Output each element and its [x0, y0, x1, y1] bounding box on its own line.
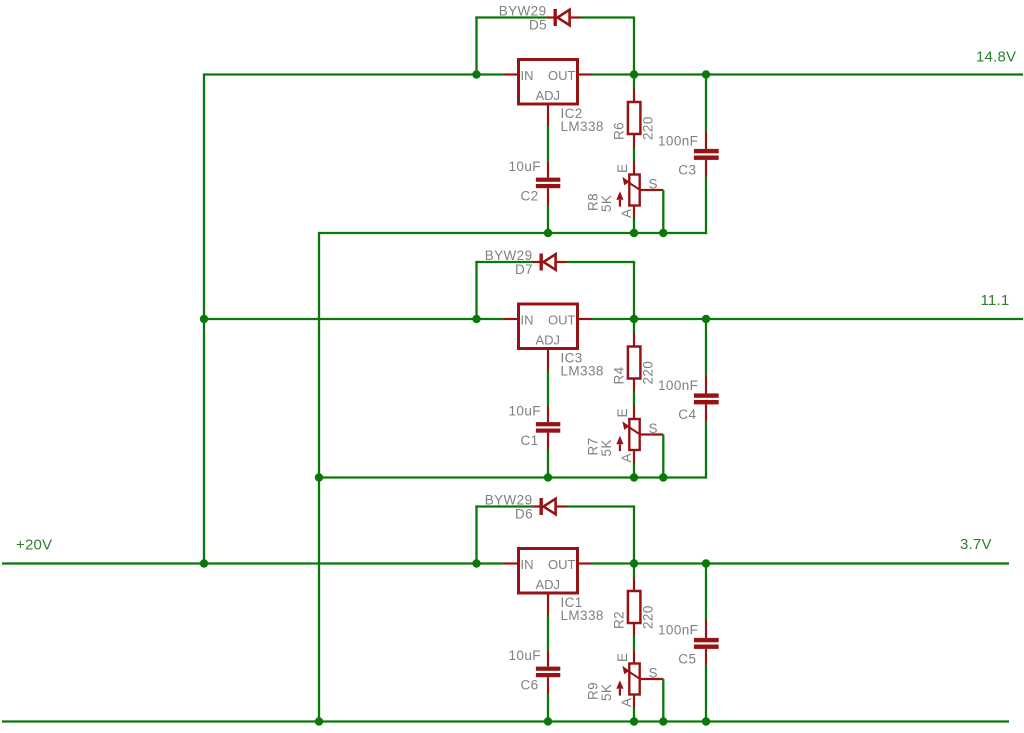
label net 3.7V — [960, 536, 992, 553]
diode D6 BYW29 — [533, 498, 567, 515]
wire OUT to R2 — [633, 564, 635, 579]
wire R7 bottom to rail — [633, 463, 635, 478]
wire bottom rail stage 2 — [319, 476, 706, 478]
label C6 value 10uF — [509, 648, 541, 663]
label pin ADJ IC2 — [536, 88, 561, 103]
svg-text:OUT: OUT — [548, 313, 576, 328]
node diode-left junction stage 1 — [472, 70, 480, 78]
diode D5 BYW29 — [547, 9, 581, 26]
resistor R4 220 — [628, 334, 641, 392]
svg-text:LM338: LM338 — [561, 119, 604, 134]
label C6 name — [521, 678, 539, 693]
svg-text:IN: IN — [521, 557, 534, 572]
label D6 name — [515, 507, 533, 522]
svg-text:220: 220 — [641, 605, 656, 629]
svg-text:E: E — [615, 164, 630, 173]
svg-text:E: E — [615, 408, 630, 417]
node OUT junction stage 1 — [630, 70, 638, 78]
node 100nF junction stage 3 — [702, 559, 710, 567]
wire ground bus vertical x=319 — [318, 232, 320, 722]
svg-text:C2: C2 — [521, 189, 539, 204]
wire R9 bottom to rail — [633, 707, 635, 722]
svg-text:BYW29: BYW29 — [485, 248, 533, 263]
wire diode loop left vertical stage 1 — [475, 16, 477, 74]
label C4 name — [678, 407, 696, 422]
svg-text:C6: C6 — [521, 678, 539, 693]
svg-text:ADJ: ADJ — [536, 577, 561, 592]
wire diode loop left vertical stage 2 — [475, 261, 477, 319]
wire diode loop top-right segment stage 2 — [567, 261, 636, 263]
node ground junction at stage2 bottom rail — [315, 473, 323, 481]
resistor R6 220 — [628, 89, 641, 147]
svg-text:OUT: OUT — [548, 68, 576, 83]
svg-text:ADJ: ADJ — [536, 88, 561, 103]
label pin IN IC1 — [521, 557, 534, 572]
svg-text:10uF: 10uF — [509, 404, 541, 419]
label R9 value 5K (rotated) — [599, 684, 614, 701]
node wiper junction stage 3 — [659, 717, 667, 725]
svg-text:A: A — [619, 698, 634, 707]
wire ground rail — [2, 720, 1009, 722]
label D7 name — [515, 262, 533, 277]
svg-text:R2: R2 — [612, 611, 627, 629]
svg-text:C3: C3 — [678, 163, 696, 178]
node +20V junction at stage3 input — [200, 559, 208, 567]
pin ADJ stub IC3 — [547, 349, 549, 371]
node ground junction on bottom rail — [315, 717, 323, 725]
label pin OUT IC2 — [548, 68, 576, 83]
node R8 bottom junction — [630, 229, 638, 237]
label C5 value 100nF — [658, 623, 698, 638]
svg-text:R6: R6 — [612, 122, 627, 140]
node R9 bottom junction — [630, 717, 638, 725]
svg-text:D7: D7 — [515, 262, 533, 277]
label pin ADJ IC1 — [536, 577, 561, 592]
wire diode loop top-right segment stage 1 — [581, 16, 636, 18]
pin IN stub IC2 — [504, 73, 519, 75]
wire input rail stage 3 — [2, 562, 504, 564]
wire OUT to C4 — [705, 319, 707, 376]
label pin E R8 (rotated) — [615, 164, 630, 173]
svg-text:S: S — [649, 177, 658, 192]
svg-text:ADJ: ADJ — [536, 333, 561, 348]
wire diode loop left vertical stage 3 — [475, 505, 477, 563]
label R4 name (rotated) — [612, 366, 627, 384]
svg-text:D5: D5 — [529, 18, 547, 33]
svg-text:E: E — [615, 653, 630, 662]
pin ADJ stub IC2 — [547, 104, 549, 126]
resistor R2 220 — [628, 578, 641, 636]
node R7 bottom junction — [630, 473, 638, 481]
wire OUT to C3 — [705, 75, 707, 132]
label pin IN IC3 — [521, 313, 534, 328]
svg-text:A: A — [619, 209, 634, 218]
label pin A R7 (rotated) — [619, 453, 634, 462]
potentiometer R9 5K — [616, 651, 663, 708]
wire diode loop top-left segment stage 1 — [475, 16, 546, 18]
label pin OUT IC3 — [548, 313, 576, 328]
node diode-left junction stage 2 — [472, 315, 480, 323]
svg-text:IN: IN — [521, 68, 534, 83]
label R2 name (rotated) — [612, 611, 627, 629]
svg-text:S: S — [649, 421, 658, 436]
svg-text:5K: 5K — [599, 195, 614, 212]
label pin ADJ IC3 — [536, 333, 561, 348]
label R8 name (rotated) — [586, 193, 601, 211]
pin IN stub IC3 — [504, 318, 519, 320]
label pin A R8 (rotated) — [619, 209, 634, 218]
svg-text:D6: D6 — [515, 507, 533, 522]
potentiometer R8 5K — [616, 162, 663, 219]
potentiometer R7 5K — [616, 406, 663, 463]
wire C1 to bottom rail — [547, 450, 549, 478]
wire R4 to R7 — [633, 392, 635, 407]
label R6 value 220 (rotated) — [641, 116, 656, 140]
pin OUT stub IC3 — [578, 318, 592, 320]
svg-text:R4: R4 — [612, 366, 627, 384]
label IC3 name — [561, 351, 583, 366]
label R8 value 5K (rotated) — [599, 195, 614, 212]
label IC1 value LM338 — [561, 608, 604, 623]
pin OUT stub IC1 — [578, 562, 592, 564]
wire diode loop right vertical stage 2 — [633, 262, 635, 319]
label R7 name (rotated) — [586, 437, 601, 455]
label pin S R8 — [649, 177, 658, 192]
svg-text:A: A — [619, 453, 634, 462]
svg-text:C5: C5 — [678, 652, 696, 667]
wire +20V feed vertical x=204 — [203, 73, 205, 563]
label pin A R9 (rotated) — [619, 698, 634, 707]
label IC2 value LM338 — [561, 119, 604, 134]
node OUT junction stage 3 — [630, 559, 638, 567]
svg-text:100nF: 100nF — [658, 134, 698, 149]
wire C6 to bottom rail — [547, 694, 549, 722]
capacitor C3 100nF — [694, 132, 719, 177]
wire diode loop top-left segment stage 2 — [475, 261, 532, 263]
wire wiper S down to rail stage 3 — [662, 679, 664, 722]
wire R2 to R9 — [633, 636, 635, 651]
svg-text:OUT: OUT — [548, 557, 576, 572]
label C4 value 100nF — [658, 378, 698, 393]
svg-text:10uF: 10uF — [509, 648, 541, 663]
node 100nF junction stage 1 — [702, 70, 710, 78]
label R6 name (rotated) — [612, 122, 627, 140]
label IC2 name — [561, 106, 583, 121]
svg-text:3.7V: 3.7V — [960, 536, 992, 553]
pin IN stub IC1 — [504, 562, 519, 564]
wire OUT to R4 — [633, 319, 635, 334]
op-amp regulator IC2 LM338 — [519, 60, 578, 105]
label net 14.8V — [976, 49, 1016, 66]
wire wiper S down to rail stage 2 — [662, 435, 664, 478]
node 100nF junction stage 2 — [702, 315, 710, 323]
svg-text:C1: C1 — [521, 433, 539, 448]
wire bottom rail stage 1 — [319, 232, 706, 234]
svg-text:5K: 5K — [599, 684, 614, 701]
pin ADJ stub IC1 — [547, 593, 549, 615]
label D7 value BYW29 — [485, 248, 533, 263]
wire ADJ net stage 1 — [547, 126, 549, 161]
wire R6 to R8 — [633, 147, 635, 162]
label C3 value 100nF — [658, 134, 698, 149]
label C5 name — [678, 652, 696, 667]
label R9 name (rotated) — [586, 682, 601, 700]
label pin S R7 — [649, 421, 658, 436]
wire diode loop top-right segment stage 3 — [567, 505, 636, 507]
svg-text:220: 220 — [641, 116, 656, 140]
label IC1 name — [561, 595, 583, 610]
label C1 name — [521, 433, 539, 448]
wire diode loop top-left segment stage 3 — [475, 505, 532, 507]
svg-text:BYW29: BYW29 — [499, 4, 547, 19]
svg-text:IN: IN — [521, 313, 534, 328]
wire output rail stage 1 — [592, 73, 1024, 75]
node OUT junction stage 2 — [630, 315, 638, 323]
label C2 value 10uF — [509, 159, 541, 174]
wire C3 down to bottom rail — [705, 177, 707, 235]
wire C5 down to bottom rail — [705, 666, 707, 723]
wire ADJ net stage 3 — [547, 615, 549, 650]
pin OUT stub IC2 — [578, 73, 592, 75]
label D5 name — [529, 18, 547, 33]
node diode-left junction stage 3 — [472, 559, 480, 567]
capacitor C2 10uF — [536, 161, 560, 205]
wire input rail stage 1 — [204, 73, 504, 75]
label pin E R9 (rotated) — [615, 653, 630, 662]
capacitor C1 10uF — [536, 406, 560, 450]
svg-text:S: S — [649, 666, 658, 681]
wire output rail stage 3 — [592, 562, 1010, 564]
node wiper junction stage 2 — [659, 473, 667, 481]
wire output rail stage 2 — [592, 318, 1024, 320]
svg-text:100nF: 100nF — [658, 623, 698, 638]
label R7 value 5K (rotated) — [599, 439, 614, 456]
svg-text:LM338: LM338 — [561, 364, 604, 379]
node wiper junction stage 1 — [659, 229, 667, 237]
diode D7 BYW29 — [533, 254, 567, 271]
label pin OUT IC1 — [548, 557, 576, 572]
wire C4 down to bottom rail — [705, 421, 707, 479]
label C3 name — [678, 163, 696, 178]
svg-text:11.1: 11.1 — [981, 292, 1010, 309]
svg-text:14.8V: 14.8V — [976, 49, 1016, 66]
svg-text:10uF: 10uF — [509, 159, 541, 174]
node C1 bottom junction — [544, 473, 552, 481]
node C5 bottom junction — [702, 717, 710, 725]
wire OUT to R6 — [633, 75, 635, 90]
svg-text:220: 220 — [641, 361, 656, 385]
svg-text:100nF: 100nF — [658, 378, 698, 393]
svg-text:+20V: +20V — [16, 537, 52, 554]
wire wiper S down to rail stage 1 — [662, 190, 664, 233]
label D6 value BYW29 — [485, 493, 533, 508]
wire ADJ net stage 2 — [547, 371, 549, 406]
capacitor C5 100nF — [694, 621, 719, 666]
capacitor C6 10uF — [536, 650, 560, 694]
label net +20V — [16, 537, 52, 554]
capacitor C4 100nF — [694, 376, 719, 421]
svg-text:LM338: LM338 — [561, 608, 604, 623]
label D5 value BYW29 — [499, 4, 547, 19]
node +20V junction at stage2 input — [200, 315, 208, 323]
node C6 bottom junction — [544, 717, 552, 725]
label R4 value 220 (rotated) — [641, 361, 656, 385]
wire input rail stage 2 — [204, 318, 504, 320]
label pin S R9 — [649, 666, 658, 681]
label C1 value 10uF — [509, 404, 541, 419]
label pin IN IC2 — [521, 68, 534, 83]
wire diode loop right vertical stage 3 — [633, 507, 635, 564]
op-amp regulator IC1 LM338 — [519, 549, 578, 594]
wire R8 bottom to rail — [633, 218, 635, 233]
label C2 name — [521, 189, 539, 204]
label IC3 value LM338 — [561, 364, 604, 379]
wire diode loop right vertical stage 1 — [633, 18, 635, 75]
op-amp regulator IC3 LM338 — [519, 304, 578, 349]
svg-text:C4: C4 — [678, 407, 696, 422]
svg-text:BYW29: BYW29 — [485, 493, 533, 508]
label pin E R7 (rotated) — [615, 408, 630, 417]
label R2 value 220 (rotated) — [641, 605, 656, 629]
wire OUT to C5 — [705, 564, 707, 621]
label net 11.1 — [981, 292, 1010, 309]
node C2 bottom junction — [544, 229, 552, 237]
svg-text:5K: 5K — [599, 439, 614, 456]
wire C2 to bottom rail — [547, 205, 549, 233]
